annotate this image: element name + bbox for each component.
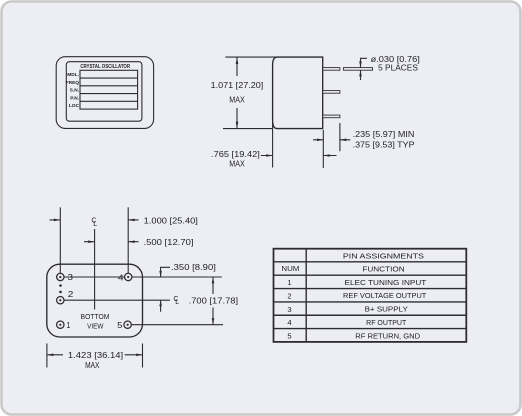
side view pin 1 extension segment — [344, 68, 373, 71]
svg-text:FUNCTION: FUNCTION — [362, 265, 404, 274]
bottom view package — [47, 264, 143, 337]
svg-text:.235 [5.97] MIN: .235 [5.97] MIN — [353, 130, 415, 139]
svg-text:3: 3 — [287, 305, 291, 314]
vertical centerline — [94, 229, 96, 310]
table row lines — [274, 262, 467, 329]
svg-text:PIN ASSIGNMENTS: PIN ASSIGNMENTS — [343, 251, 424, 260]
dim pin diameter arrowheads — [359, 61, 362, 67]
bottom view pin 2 — [57, 297, 64, 304]
dim .350 arrowheads — [159, 271, 162, 277]
svg-text:RF RETURN, GND: RF RETURN, GND — [355, 331, 420, 340]
svg-text:FREQ: FREQ — [66, 80, 80, 86]
row 3-4 line — [64, 276, 222, 278]
dim 1.071 extension lines — [223, 57, 277, 129]
svg-text:NUM: NUM — [281, 264, 299, 273]
svg-text:L: L — [93, 221, 97, 228]
svg-text:3: 3 — [67, 273, 73, 282]
svg-text:4: 4 — [118, 273, 124, 282]
svg-text:ELEC TUNING INPUT: ELEC TUNING INPUT — [345, 278, 427, 287]
svg-text:VIEW: VIEW — [87, 322, 103, 331]
svg-text:.500 [12.70]: .500 [12.70] — [144, 238, 194, 247]
side view package — [273, 57, 323, 129]
label plate row labels — [66, 72, 80, 109]
dim .700 dimension line — [212, 277, 214, 325]
svg-text:S.N.: S.N. — [70, 88, 79, 94]
dim 1.423 extension lines — [47, 344, 143, 368]
svg-text:2: 2 — [287, 291, 291, 300]
vertical extension line pin3 — [59, 207, 61, 273]
dim 1.071 arrowheads — [236, 57, 239, 64]
svg-text:L: L — [175, 299, 179, 306]
svg-text:B+ SUPPLY: B+ SUPPLY — [365, 305, 408, 314]
svg-text:5 PLACES: 5 PLACES — [378, 64, 418, 73]
label plate inner — [66, 62, 142, 121]
svg-text:2: 2 — [68, 290, 74, 299]
table column divider — [305, 249, 307, 342]
pin assignments table frame — [274, 249, 467, 342]
svg-text:5: 5 — [117, 321, 123, 330]
side view pin 2 — [323, 91, 340, 94]
svg-text:MAX: MAX — [85, 361, 100, 370]
label plate outer — [56, 57, 153, 129]
dim .350 leader — [161, 267, 170, 312]
svg-text:CRYSTAL OSCILLATOR: CRYSTAL OSCILLATOR — [80, 64, 130, 70]
centerline symbol top — [91, 218, 97, 228]
dim 1.423 dimension line — [47, 354, 143, 356]
svg-text:MAX: MAX — [229, 159, 245, 168]
side view pin 1 — [323, 68, 340, 71]
svg-text:1.423 [36.14]: 1.423 [36.14] — [68, 351, 123, 360]
svg-text:1: 1 — [287, 278, 291, 287]
svg-text:LOC: LOC — [69, 103, 80, 109]
bottom view index dots — [59, 284, 62, 287]
svg-text:1: 1 — [66, 321, 70, 330]
svg-text:RF OUTPUT: RF OUTPUT — [366, 318, 406, 327]
svg-text:.375 [9.53] TYP: .375 [9.53] TYP — [353, 140, 415, 149]
svg-text:1.071 [27.20]: 1.071 [27.20] — [211, 81, 264, 90]
dim .700 arrowheads — [212, 277, 215, 283]
svg-text:5: 5 — [287, 332, 291, 341]
row 2 centerline — [64, 299, 170, 301]
svg-text:REF VOLTAGE OUTPUT: REF VOLTAGE OUTPUT — [343, 291, 427, 300]
dim .235/.375 extension lines — [323, 123, 340, 168]
dim 1.423 arrowheads — [47, 354, 53, 357]
svg-text:1.000 [25.40]: 1.000 [25.40] — [144, 216, 198, 225]
side view pin 3 — [323, 115, 340, 118]
svg-text:4: 4 — [287, 318, 291, 327]
svg-text:.765 [19.42]: .765 [19.42] — [211, 150, 260, 159]
bottom view pin 1 — [57, 321, 64, 328]
dim 1.000 arrows — [50, 219, 139, 221]
bottom view pin 4 — [125, 273, 132, 280]
row 5 line — [131, 324, 223, 326]
svg-text:P.N.: P.N. — [70, 96, 79, 102]
dim .235/.375 arrows — [313, 139, 350, 141]
svg-text:MDL.: MDL. — [67, 72, 79, 78]
bottom view pin 5 — [124, 321, 131, 328]
label plate row lines — [80, 78, 138, 101]
svg-text:.350 [8.90]: .350 [8.90] — [171, 263, 216, 272]
label plate rows box — [80, 70, 138, 109]
svg-text:MAX: MAX — [229, 96, 245, 105]
dim 1.071 dimension line — [236, 57, 238, 129]
bottom view pin 3 — [57, 273, 64, 280]
svg-text:BOTTOM: BOTTOM — [81, 312, 110, 321]
dim pin diameter leader — [361, 58, 368, 80]
centerline symbol row2 — [173, 296, 179, 306]
svg-text:.700 [17.78]: .700 [17.78] — [189, 296, 239, 305]
dim .500 arrows — [84, 241, 139, 243]
vertical extension line pin4 — [127, 207, 129, 273]
dim .765 arrows — [261, 155, 337, 157]
dim .765 extension line left — [272, 122, 274, 168]
